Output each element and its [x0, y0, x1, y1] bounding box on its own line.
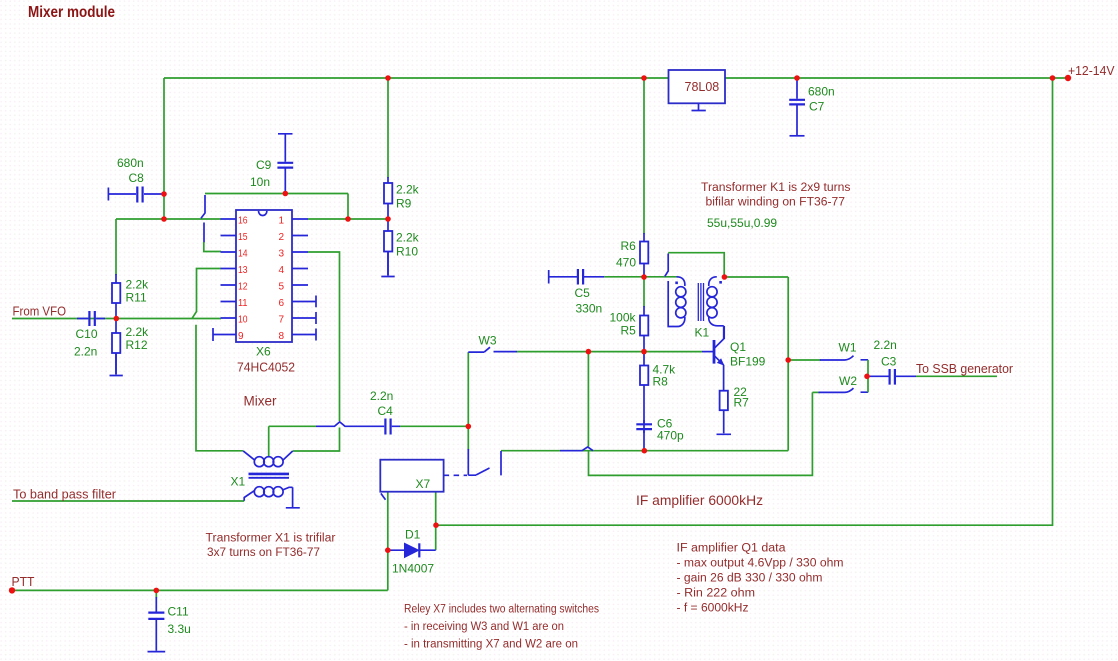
open end below R7 [717, 410, 732, 434]
svg-text:3: 3 [278, 248, 284, 259]
svg-text:100k: 100k [610, 311, 637, 325]
svg-text:Mixer: Mixer [244, 394, 278, 409]
capacitor C9 with open top end [278, 134, 293, 193]
svg-text:To SSB generator: To SSB generator [916, 361, 1014, 376]
resistor R10 [384, 231, 392, 252]
node D1 anode / X7 left [385, 547, 391, 553]
node rail R6 [641, 75, 647, 81]
svg-text:D1: D1 [405, 528, 421, 542]
wire C6 row horizontal [501, 450, 788, 452]
svg-text:PTT: PTT [12, 574, 35, 589]
terminal +12-14V [1065, 75, 1071, 81]
node rail R9 [385, 75, 391, 81]
wire R10 column [387, 219, 389, 276]
node C10/R11/R12 [114, 316, 120, 322]
svg-text:To band pass filter: To band pass filter [13, 487, 117, 502]
svg-text:1N4007: 1N4007 [392, 562, 434, 576]
node pin1 row at header drop [345, 216, 351, 222]
wire R11 column [115, 219, 117, 275]
svg-text:W2: W2 [839, 374, 857, 388]
voltage regulator 78L08 box [669, 70, 726, 103]
svg-text:Transformer X1 is trifilar: Transformer X1 is trifilar [206, 533, 336, 545]
svg-text:470p: 470p [657, 429, 684, 443]
node C8/rail left drop [161, 191, 167, 197]
transistor Q1 base bar [713, 340, 716, 364]
svg-text:IF amplifier 6000kHz: IF amplifier 6000kHz [636, 492, 763, 508]
resistor R9 [384, 183, 392, 204]
node R9/R10 junction [385, 216, 391, 222]
svg-text:9: 9 [238, 331, 244, 342]
svg-text:2.2k: 2.2k [396, 231, 420, 245]
diode D1 [405, 543, 419, 557]
wire left drop from rail to pin16 row [163, 78, 165, 219]
wire X7 left pin down to PTT [387, 492, 389, 591]
switch W3 [468, 347, 517, 352]
wire W3 to Q1 base row [517, 351, 702, 353]
wire R8 C6 column [643, 352, 645, 451]
svg-text:2.2k: 2.2k [126, 325, 150, 339]
capacitor C11 with open bottom end [148, 613, 164, 619]
wire D1 leads [388, 549, 436, 551]
wire W1 spur [788, 359, 820, 361]
resistor R6 [640, 242, 648, 264]
node C4/W3 column [466, 424, 472, 430]
svg-text:2.2n: 2.2n [370, 389, 393, 403]
wire U loop down to W2 [589, 392, 813, 475]
svg-text:X7: X7 [416, 477, 431, 491]
svg-text:R7: R7 [734, 396, 750, 410]
svg-text:2: 2 [278, 232, 284, 243]
wire right corner down to C6 row [787, 277, 789, 451]
wire X1 center tap row to C4 [269, 425, 469, 427]
wire right rail down and bottom return [436, 78, 1053, 525]
transformer X1 secondary winding [244, 490, 255, 501]
svg-text:R9: R9 [396, 197, 412, 211]
relay X7 box [380, 460, 443, 492]
wire K1 top loop [668, 253, 724, 277]
node C11 on PTT row [154, 588, 160, 594]
wire C3 row [867, 375, 916, 377]
svg-text:C9: C9 [256, 158, 272, 172]
switch W1 [820, 356, 868, 360]
transformer X1 core [249, 473, 290, 476]
svg-text:8: 8 [278, 331, 284, 342]
relay tick mark [381, 493, 386, 499]
terminal PTT [9, 587, 15, 593]
capacitor C8 with open left end [108, 188, 163, 201]
svg-text:- in receiving W3 and W1 are o: - in receiving W3 and W1 are on [404, 621, 564, 633]
node C5/R6/R5/K1 [641, 274, 647, 280]
svg-text:C3: C3 [881, 355, 897, 369]
wire K1 left kink and bar [665, 254, 678, 327]
wire drop from C9 header to pin1 row [347, 194, 349, 220]
node C6 bottom row [642, 448, 648, 454]
svg-text:Mixer module: Mixer module [28, 4, 115, 21]
svg-text:12: 12 [238, 281, 248, 292]
wire C5 row [549, 270, 605, 284]
svg-text:R5: R5 [621, 324, 637, 338]
svg-text:3x7 turns on FT36-77: 3x7 turns on FT36-77 [207, 547, 320, 559]
svg-text:C10: C10 [76, 327, 98, 341]
wire pin16 row (VCC to IC pin 16) [116, 218, 221, 220]
IC X6 right pin stubs [292, 219, 308, 285]
node base row R5/R8 [641, 349, 647, 355]
node X7 right / bottom return [433, 522, 439, 528]
svg-text:From VFO: From VFO [13, 304, 67, 319]
svg-text:14: 14 [238, 248, 248, 259]
wire C6 row blue kink bump [560, 447, 593, 451]
K1 right winding phase dot [719, 281, 722, 284]
svg-text:4: 4 [278, 265, 284, 276]
node W1 spur [785, 357, 791, 363]
wire From VFO row to IC pin 10 [12, 318, 221, 320]
transformer K1 core [698, 283, 703, 321]
capacitor C10 [77, 318, 105, 320]
svg-text:W3: W3 [479, 334, 497, 348]
node rail C7 [794, 75, 800, 81]
svg-text:680n: 680n [117, 156, 144, 170]
svg-text:Q1: Q1 [730, 340, 746, 354]
svg-text:5: 5 [278, 281, 284, 292]
open end below R10 [381, 252, 394, 277]
wire Q1 base blue stub [702, 351, 714, 353]
capacitor C4 [382, 425, 400, 427]
IC X6 pin 9 stub with open end [213, 328, 236, 341]
svg-text:Reley X7 includes two alternat: Reley X7 includes two alternating switch… [404, 604, 599, 616]
wire R6 column from rail [643, 78, 645, 234]
svg-text:10: 10 [238, 314, 248, 325]
resistor R7 [720, 391, 728, 411]
wire R9 column [387, 78, 389, 178]
svg-text:2.2n: 2.2n [874, 338, 897, 352]
wire IC pin13 to mixer left vertical with kink, down to X1 [192, 269, 243, 451]
wire C7 column [796, 78, 798, 135]
svg-text:11: 11 [238, 298, 248, 309]
wire W3 node down to C6 row kink [587, 352, 589, 447]
wire C9 header above IC [205, 193, 348, 195]
svg-text:X1: X1 [231, 475, 246, 489]
ground below 78L08 [692, 103, 706, 110]
transistor Q1 collector [714, 326, 724, 349]
node rail right corner [1050, 75, 1056, 81]
svg-text:IF amplifier Q1 data: IF amplifier Q1 data [677, 543, 787, 555]
wire +12V top rail [164, 77, 1068, 79]
wire R5 column [643, 277, 645, 307]
capacitor C5 [578, 269, 583, 285]
open end below R12 [110, 353, 123, 376]
svg-text:R12: R12 [126, 338, 148, 352]
svg-text:R11: R11 [126, 291, 147, 305]
capacitor C7 with open bottom end [789, 100, 805, 105]
capacitor C6 [643, 420, 645, 433]
resistor R8 [640, 366, 648, 386]
svg-text:- Rin 222 ohm: - Rin 222 ohm [677, 588, 756, 600]
relay mechanical dashes [444, 474, 467, 476]
svg-text:R10: R10 [396, 245, 418, 259]
wire X7 right pin down to D1 [435, 492, 437, 551]
resistor R5 [640, 316, 648, 336]
node K1 secondary top [722, 274, 728, 280]
node W3 row / C6 branch [586, 349, 592, 355]
svg-text:470: 470 [616, 256, 636, 270]
svg-text:2.2k: 2.2k [396, 183, 420, 197]
svg-text:2.2k: 2.2k [126, 278, 150, 292]
wire To band pass filter row [12, 500, 244, 502]
svg-text:3.3u: 3.3u [168, 622, 191, 636]
svg-text:BF199: BF199 [730, 355, 766, 369]
IC X6 body [236, 210, 292, 342]
capacitor C3 [890, 369, 895, 385]
wire C5 to R6/R5 node [604, 276, 676, 278]
wire X1 center tap vertical [268, 426, 270, 457]
svg-text:74HC4052: 74HC4052 [237, 360, 295, 375]
transistor Q1 emitter with arrow [714, 355, 724, 391]
svg-text:+12-14V: +12-14V [1068, 63, 1115, 78]
svg-text:- f = 6000kHz: - f = 6000kHz [677, 603, 749, 615]
svg-text:6: 6 [278, 298, 284, 309]
svg-text:Transformer K1 is 2x9 turns: Transformer K1 is 2x9 turns [701, 182, 851, 194]
wire R12 column [115, 319, 117, 375]
node W1/W2/C3 [864, 374, 870, 380]
IC X6 notch [259, 211, 267, 216]
svg-text:- in transmitting X7 and W2 ar: - in transmitting X7 and W2 are on [404, 639, 578, 651]
wire pin1 row to R9/R10 [308, 218, 388, 220]
svg-text:bifilar winding on FT36-77: bifilar winding on FT36-77 [706, 197, 846, 209]
wire link down to IC pin 14 [204, 242, 221, 252]
wire W3 column C4 node [467, 352, 469, 450]
node pin16 row at left drop [161, 216, 167, 222]
svg-text:330n: 330n [576, 302, 603, 316]
svg-text:15: 15 [238, 232, 248, 243]
svg-text:C4: C4 [378, 404, 394, 418]
wire W3 column blue lower stub to relay contact [467, 449, 469, 475]
svg-text:X6: X6 [256, 345, 271, 359]
wire IC pin3 down mixer right vertical [308, 252, 340, 421]
wire mixer right vertical lower part to X1 primary right [293, 428, 340, 452]
svg-text:R6: R6 [621, 239, 637, 253]
switch W2 [812, 391, 819, 393]
K1 left winding phase dot [675, 282, 678, 285]
svg-text:16: 16 [238, 215, 248, 226]
wire K1 secondary top to right corner [725, 276, 789, 278]
svg-text:680n: 680n [808, 85, 835, 99]
resistor R11 [112, 283, 120, 303]
svg-text:7: 7 [278, 314, 284, 325]
svg-text:78L08: 78L08 [685, 80, 720, 94]
svg-text:1: 1 [278, 215, 284, 226]
transformer K1 left winding [677, 277, 685, 286]
node C9 at header [283, 191, 289, 197]
transformer K1 right winding [709, 277, 717, 286]
transformer X1 primary winding [243, 451, 255, 460]
wire C11 column [155, 590, 157, 598]
svg-text:13: 13 [238, 265, 248, 276]
svg-text:K1: K1 [695, 326, 710, 340]
svg-text:R8: R8 [653, 375, 669, 389]
resistor R12 [112, 333, 120, 353]
relay switch blade [468, 451, 501, 475]
svg-text:- gain 26 dB 330 / 330 ohm: - gain 26 dB 330 / 330 ohm [677, 573, 823, 585]
wire To SSB generator [916, 375, 997, 377]
wire kink junction into pin16 row [201, 195, 205, 243]
svg-text:W1: W1 [839, 341, 857, 355]
IC X6 left pin stubs [221, 219, 237, 318]
svg-text:C7: C7 [809, 100, 825, 114]
svg-text:C5: C5 [575, 286, 591, 300]
IC X6 pins 6 7 8 stubs with open ends [292, 296, 316, 341]
wire C4 row blue segment with kink bump [316, 422, 382, 426]
svg-text:55u,55u,0.99: 55u,55u,0.99 [707, 216, 777, 230]
svg-text:10n: 10n [250, 175, 270, 189]
svg-text:C8: C8 [129, 171, 145, 185]
svg-text:2.2n: 2.2n [74, 345, 97, 359]
svg-text:C11: C11 [168, 605, 189, 619]
wire PTT row [12, 589, 388, 591]
svg-text:- max output 4.6Vpp / 330 ohm: - max output 4.6Vpp / 330 ohm [677, 558, 844, 570]
